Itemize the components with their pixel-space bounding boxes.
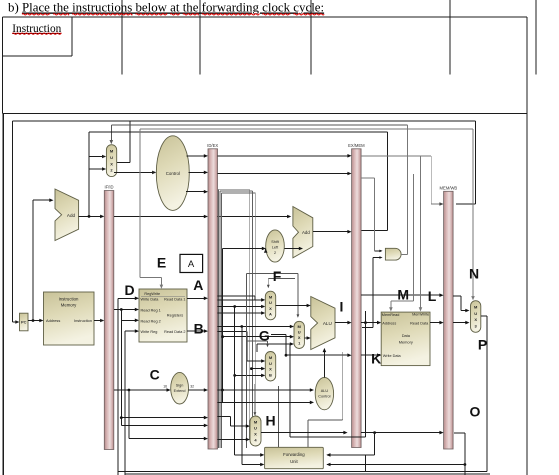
svg-text:Control: Control — [318, 394, 330, 398]
svg-text:Instruction: Instruction — [59, 297, 79, 302]
svg-text:ID/EX: ID/EX — [207, 143, 218, 148]
svg-text:P: P — [478, 336, 487, 352]
svg-text:A: A — [188, 259, 195, 270]
svg-text:U: U — [254, 426, 257, 431]
svg-text:X: X — [269, 367, 272, 372]
svg-text:B: B — [269, 373, 272, 378]
svg-text:32: 32 — [190, 385, 194, 389]
svg-text:O: O — [470, 404, 481, 420]
svg-text:ALU: ALU — [321, 389, 329, 393]
svg-text:Read Data: Read Data — [410, 321, 429, 325]
svg-text:Control: Control — [166, 171, 180, 176]
svg-text:Unit: Unit — [290, 459, 298, 464]
svg-text:A: A — [193, 277, 203, 293]
svg-text:D: D — [124, 282, 134, 298]
svg-text:X: X — [269, 306, 272, 311]
svg-text:Forwarding: Forwarding — [283, 452, 305, 457]
svg-text:MEM/WB: MEM/WB — [440, 186, 458, 191]
svg-text:Read Data 1: Read Data 1 — [164, 297, 185, 301]
svg-text:MemWrite: MemWrite — [412, 313, 429, 317]
svg-text:A: A — [269, 312, 272, 317]
svg-text:16: 16 — [163, 385, 167, 389]
svg-text:IF/ID: IF/ID — [104, 185, 113, 190]
svg-text:Write Data: Write Data — [383, 354, 402, 358]
svg-text:RegWrite: RegWrite — [144, 292, 160, 296]
svg-text:I: I — [340, 299, 344, 315]
svg-text:Left: Left — [272, 246, 279, 250]
svg-text:Memory: Memory — [61, 303, 77, 308]
svg-text:G: G — [259, 328, 270, 344]
svg-text:Write Reg: Write Reg — [141, 330, 158, 334]
svg-text:b) Place the instructions belo: b) Place the instructions below at the f… — [8, 1, 324, 15]
svg-text:Shift: Shift — [271, 240, 280, 244]
svg-text:Add: Add — [302, 230, 310, 235]
svg-text:Sign: Sign — [176, 384, 184, 388]
svg-text:U: U — [269, 300, 272, 305]
svg-text:Read Data 2: Read Data 2 — [164, 330, 185, 334]
svg-text:N: N — [469, 265, 479, 281]
svg-text:Memory: Memory — [399, 340, 413, 345]
svg-text:C: C — [150, 366, 160, 382]
svg-text:K: K — [371, 350, 381, 366]
svg-text:Read Reg 1: Read Reg 1 — [141, 309, 161, 313]
svg-text:PC: PC — [21, 320, 27, 325]
svg-text:Address: Address — [46, 318, 60, 323]
svg-text:EX/MEM: EX/MEM — [348, 143, 365, 148]
svg-text:U: U — [110, 155, 113, 160]
svg-text:Instruction: Instruction — [74, 318, 92, 323]
svg-text:Add: Add — [67, 213, 76, 218]
svg-text:ALU: ALU — [323, 321, 332, 326]
svg-text:X: X — [110, 161, 113, 166]
svg-text:U: U — [474, 311, 477, 316]
svg-text:Read Reg 2: Read Reg 2 — [141, 319, 161, 323]
svg-text:U: U — [269, 361, 272, 366]
svg-text:H: H — [266, 413, 276, 429]
svg-text:2: 2 — [274, 251, 276, 255]
svg-text:MemRead: MemRead — [382, 313, 400, 317]
svg-text:B: B — [194, 321, 204, 337]
svg-text:Registers: Registers — [167, 312, 183, 317]
svg-text:Data: Data — [402, 333, 411, 338]
svg-text:Extend: Extend — [174, 389, 186, 393]
svg-text:X: X — [474, 317, 477, 322]
svg-text:X: X — [254, 432, 257, 437]
svg-text:L: L — [428, 288, 437, 304]
svg-text:M: M — [397, 287, 409, 303]
svg-text:U: U — [298, 330, 301, 335]
svg-text:E: E — [157, 255, 166, 271]
svg-text:Address: Address — [382, 321, 396, 325]
svg-text:Write Data: Write Data — [141, 297, 160, 301]
svg-text:F: F — [273, 268, 282, 284]
svg-text:X: X — [298, 335, 301, 340]
